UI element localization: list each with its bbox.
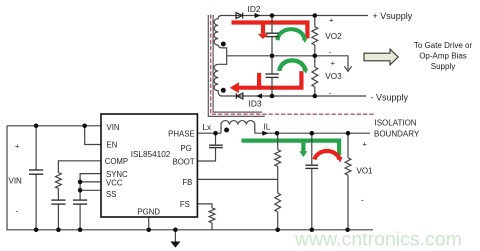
svg-text:ISL854102: ISL854102 bbox=[131, 150, 171, 159]
current arrow IL bbox=[262, 131, 268, 136]
resistor R-COMP bbox=[56, 173, 62, 189]
svg-text:-: - bbox=[329, 48, 332, 57]
svg-text:VO3: VO3 bbox=[325, 72, 342, 81]
resistor VO3 load bbox=[314, 56, 316, 67]
junction: rail / R-FB bbox=[275, 228, 280, 233]
junction: phase rail / C-OUT bbox=[310, 131, 315, 136]
wire: FS branch bbox=[197, 204, 212, 208]
svg-text:- Vsupply: - Vsupply bbox=[371, 92, 409, 102]
junction: phase rail / R-VO1 bbox=[346, 131, 351, 136]
resistor VO2 load bbox=[314, 16, 316, 27]
svg-text:ID3: ID3 bbox=[249, 99, 262, 109]
capacitor C-VO2 plates bbox=[266, 32, 279, 34]
wire: SS branch bbox=[80, 189, 101, 191]
capacitor C-OUT plates bbox=[305, 164, 318, 166]
junction: VIN rail / EN bbox=[82, 124, 87, 129]
wire: bottom secondary rail to -Vsupply bbox=[221, 95, 366, 97]
svg-text:ID2: ID2 bbox=[248, 4, 261, 14]
svg-text:VCC: VCC bbox=[106, 178, 123, 187]
capacitor C-VO3 leads bbox=[271, 56, 273, 74]
isolation boundary dashed line bbox=[211, 15, 374, 115]
capacitor C-VCC plates bbox=[73, 199, 87, 201]
junction: bottom rail / C-VO3 bbox=[270, 94, 275, 99]
current direction arrow before ID3 bbox=[256, 93, 262, 98]
svg-text:Lx: Lx bbox=[203, 123, 211, 132]
junction: top rail / C-VO2 bbox=[270, 13, 275, 18]
svg-text:BOUNDARY: BOUNDARY bbox=[374, 129, 420, 138]
junction: rail / C-OUT bbox=[310, 228, 315, 233]
capacitor C-VO3 plates bbox=[266, 73, 279, 75]
svg-text:ISOLATION: ISOLATION bbox=[375, 118, 417, 127]
svg-text:+ Vsupply: + Vsupply bbox=[373, 11, 413, 21]
wire: top coil bottom to center-tap bracket bbox=[218, 45, 227, 64]
wire: COMP branch bbox=[58, 161, 101, 173]
inductor Lx winding bbox=[221, 121, 255, 134]
wire: PGND stub bbox=[148, 217, 150, 230]
resistor R-FB-top leads bbox=[277, 133, 279, 149]
junction: rail / ground symbol bbox=[173, 228, 178, 233]
junction: bottom rail / R-VO3 bbox=[313, 94, 318, 99]
wire: center tap to mid rail and common arrow stem bbox=[227, 56, 348, 70]
resistor R-FB-bottom bbox=[275, 193, 281, 212]
diode ID2 bbox=[236, 13, 243, 19]
wire: PHASE node bbox=[197, 132, 221, 134]
svg-text:+: + bbox=[329, 16, 334, 25]
transformer T1 secondary winding bottom bbox=[214, 64, 221, 96]
svg-text:SS: SS bbox=[106, 190, 116, 199]
capacitor C-COMP leads bbox=[57, 189, 59, 200]
wire: top secondary rail to +Vsupply bbox=[221, 15, 368, 17]
junction: top rail / R-VO2 bbox=[313, 13, 318, 18]
svg-text:VO1: VO1 bbox=[357, 166, 374, 175]
junction: rail / C-VCC bbox=[78, 228, 83, 233]
svg-text:PGND: PGND bbox=[137, 208, 160, 217]
IC U1 ISL854102 body bbox=[101, 114, 197, 217]
svg-text:-: - bbox=[361, 196, 364, 205]
transformer T1 core inner arm bbox=[213, 15, 262, 112]
svg-text:FB: FB bbox=[182, 178, 192, 187]
green current loop primary bbox=[242, 141, 340, 156]
capacitor C-VCC leads bbox=[79, 204, 81, 230]
svg-text:Supply: Supply bbox=[431, 62, 455, 71]
svg-text:PG: PG bbox=[180, 144, 191, 153]
wire: left input vertical bbox=[6, 126, 8, 230]
ground symbol bbox=[170, 242, 180, 248]
polarity dot bottom secondary bbox=[221, 88, 226, 93]
transformer T1 secondary winding top bbox=[214, 16, 221, 46]
junction: PHASE / C-BOOT bbox=[213, 131, 218, 136]
green loop arrow VO2 bbox=[278, 29, 305, 40]
diode ID3 bbox=[236, 93, 243, 99]
red loop arrow VO1 bbox=[315, 151, 340, 159]
junction: mid rail / R-VO3 bbox=[313, 54, 318, 59]
capacitor C-IN plates bbox=[29, 169, 43, 171]
svg-text:+: + bbox=[331, 58, 336, 67]
wire: FB branch bbox=[197, 178, 277, 180]
svg-text:EN: EN bbox=[107, 141, 118, 150]
resistor R-VO1 leads bbox=[347, 133, 349, 158]
junction: VCC node bbox=[78, 180, 83, 185]
svg-text:BOOT: BOOT bbox=[173, 157, 195, 166]
wire: ground bottom rail bbox=[6, 229, 373, 231]
capacitor C-OUT leads bbox=[311, 133, 313, 165]
svg-text:PHASE: PHASE bbox=[168, 129, 194, 138]
capacitor C-COMP plates bbox=[51, 199, 65, 201]
junction: rail / C-COMP bbox=[56, 228, 61, 233]
junction: rail / PGND bbox=[146, 228, 151, 233]
capacitor C-VO2 leads bbox=[271, 16, 273, 34]
junction: VIN rail / C-IN bbox=[34, 124, 39, 129]
svg-text:www.cntronics.com: www.cntronics.com bbox=[294, 229, 462, 251]
junction: rail / R-VO1 bbox=[345, 228, 350, 233]
capacitor C-BOOT plates bbox=[209, 144, 223, 146]
wire: EN branch bbox=[85, 126, 101, 145]
junction: rail / C-IN bbox=[34, 228, 39, 233]
capacitor C-BOOT leads bbox=[215, 133, 217, 145]
svg-text:FS: FS bbox=[180, 200, 190, 209]
red current loop VO3 bbox=[239, 71, 302, 88]
svg-text:VIN: VIN bbox=[107, 123, 120, 132]
svg-text:-: - bbox=[329, 88, 332, 97]
polarity dot Lx bbox=[224, 128, 229, 133]
svg-text:+: + bbox=[15, 142, 20, 151]
capacitor C-IN leads bbox=[35, 126, 37, 170]
svg-text:VIN: VIN bbox=[9, 177, 23, 186]
common-return open arrowhead bbox=[344, 66, 351, 71]
svg-text:VO2: VO2 bbox=[325, 32, 342, 41]
junction: phase rail node 1 bbox=[275, 131, 280, 136]
resistor R-FS bbox=[209, 208, 215, 223]
svg-text:To Gate Drive or: To Gate Drive or bbox=[414, 41, 473, 50]
red current loop VO2 bbox=[232, 23, 308, 39]
wire: VIN top rail bbox=[7, 125, 101, 127]
junction: SS node bbox=[78, 188, 83, 193]
polarity dot top secondary bbox=[221, 42, 226, 47]
wire: Lx to VO1 node bbox=[255, 132, 370, 134]
svg-text:+: + bbox=[363, 139, 368, 148]
junction: mid rail / C-VO3 bbox=[270, 54, 275, 59]
wire: VCC branch bbox=[80, 181, 101, 183]
svg-text:IL: IL bbox=[264, 123, 271, 132]
current direction arrow after ID2 bbox=[255, 13, 261, 18]
block arrow to gate drive supply bbox=[364, 49, 398, 65]
svg-text:-: - bbox=[16, 207, 19, 216]
wire: SYNC branch bbox=[80, 174, 101, 182]
green loop arrow VO3 bbox=[280, 60, 306, 71]
svg-text:Op-Amp Bias: Op-Amp Bias bbox=[419, 51, 467, 60]
transformer T1 core outer arm bbox=[208, 15, 264, 116]
svg-text:COMP: COMP bbox=[105, 157, 128, 166]
wire: ground symbol stem bbox=[174, 230, 176, 242]
